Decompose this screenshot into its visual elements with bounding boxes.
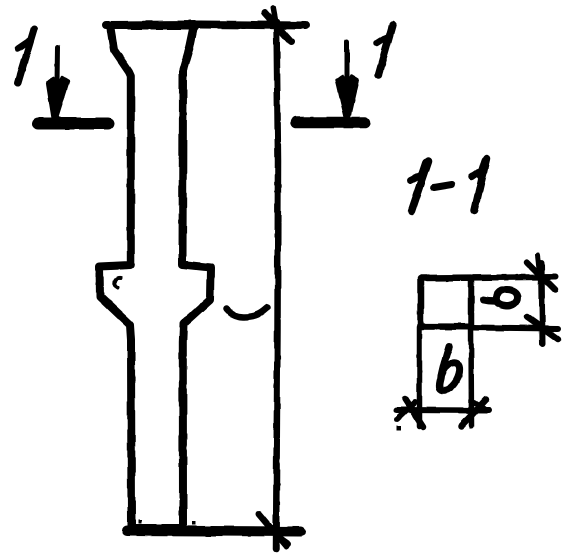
top edge line with extension to dimension line (106, 25, 306, 26)
section title "1-1" : first 1 (412, 161, 429, 212)
stray ink dot above column base (right) (192, 522, 196, 526)
extension line: left of bottom dimension (417, 327, 423, 427)
dimension line (column height) (276, 22, 278, 549)
tick at left of horizontal b dimension (405, 399, 423, 427)
section cut label 1 (left) (18, 29, 34, 83)
section cut arrow (right) (345, 42, 350, 82)
bottom edge line with extension to dimension line (127, 531, 301, 532)
extension line: right of bottom dimension (468, 327, 474, 426)
tick at bottom of dimension line (259, 514, 286, 546)
section title "1-1" : dash (434, 185, 452, 188)
dimension line b (horizontal, below section) (396, 407, 489, 414)
section cut arrow (left) (55, 47, 61, 84)
break mark (tilde) on shaft (227, 308, 268, 318)
extension line: top of right dimension (471, 274, 556, 281)
dimension line b (vertical, right of section) (542, 263, 543, 344)
dimension label b (rotated) (484, 289, 518, 306)
tick at right of horizontal b dimension (462, 400, 487, 427)
stray ink dot near bottom-left tick (397, 426, 402, 431)
column outline (elevation view) (100, 26, 211, 529)
small hook mark inside left corbel (115, 278, 121, 288)
tick at top of dimension line (265, 13, 291, 42)
dimension label b (upright) (439, 346, 459, 390)
tick at bottom of vertical b dimension (527, 317, 558, 339)
section cut line bar (right) (296, 117, 365, 129)
section cut line bar (left) (38, 118, 108, 130)
section square b x b (421, 278, 472, 327)
stray ink dot above column base (left) (138, 520, 142, 524)
section cut label 1 (right) (379, 25, 393, 75)
tick at top of vertical b dimension (527, 262, 555, 290)
section title "1-1" : second 1 (475, 159, 487, 211)
extension line: bottom of right dimension (471, 328, 558, 329)
